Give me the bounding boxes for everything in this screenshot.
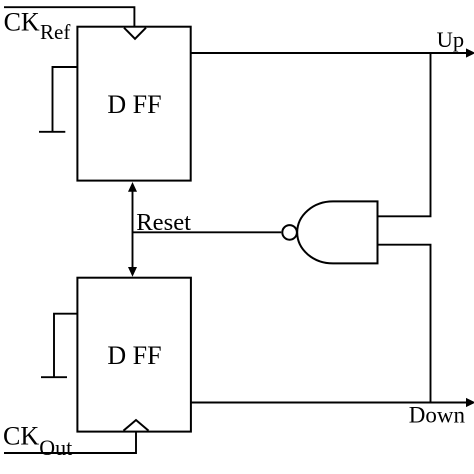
clock wedge U1 [124,28,146,39]
arrowhead Down [466,398,474,407]
wire Reset vertical [132,189,134,269]
arrowhead Reset down (into U2) [128,267,137,277]
wire Down output [191,402,468,404]
arrowhead Reset up (into U1) [128,182,137,192]
svg-text:Up: Up [437,27,465,52]
D flip-flop U2 (bottom) [77,278,190,432]
wire Up branch to NAND top input [378,53,431,216]
svg-text:CK: CK [3,422,39,451]
wire Up output [191,52,468,54]
logic-high bar U1 [39,131,65,133]
svg-text:Ref: Ref [40,20,70,44]
svg-text:D FF: D FF [107,90,161,119]
inverter bubble U3 [282,225,297,240]
svg-text:Down: Down [409,403,466,428]
NAND gate U3 (mirrored, pointing left) [297,201,377,263]
wire CK_Out input [4,432,136,453]
wire NAND bottom input branch to Down [378,245,431,403]
logic-high bar U2 [41,376,67,378]
svg-text:D FF: D FF [107,341,161,370]
D flip-flop U1 (top) [77,27,190,181]
wire D-input tie U1 [53,67,78,132]
wire D-input tie U2 [54,314,77,378]
arrowhead Up [466,48,474,57]
wire CK_Ref input [4,7,134,27]
svg-text:CK: CK [4,7,40,36]
svg-text:Reset: Reset [136,209,191,236]
label CK_Out [3,422,72,460]
svg-text:Out: Out [39,435,72,460]
clock wedge U2 [124,420,149,431]
wire Reset (NAND output to flip-flop resets) [133,231,282,233]
label CK_Ref [4,7,71,44]
